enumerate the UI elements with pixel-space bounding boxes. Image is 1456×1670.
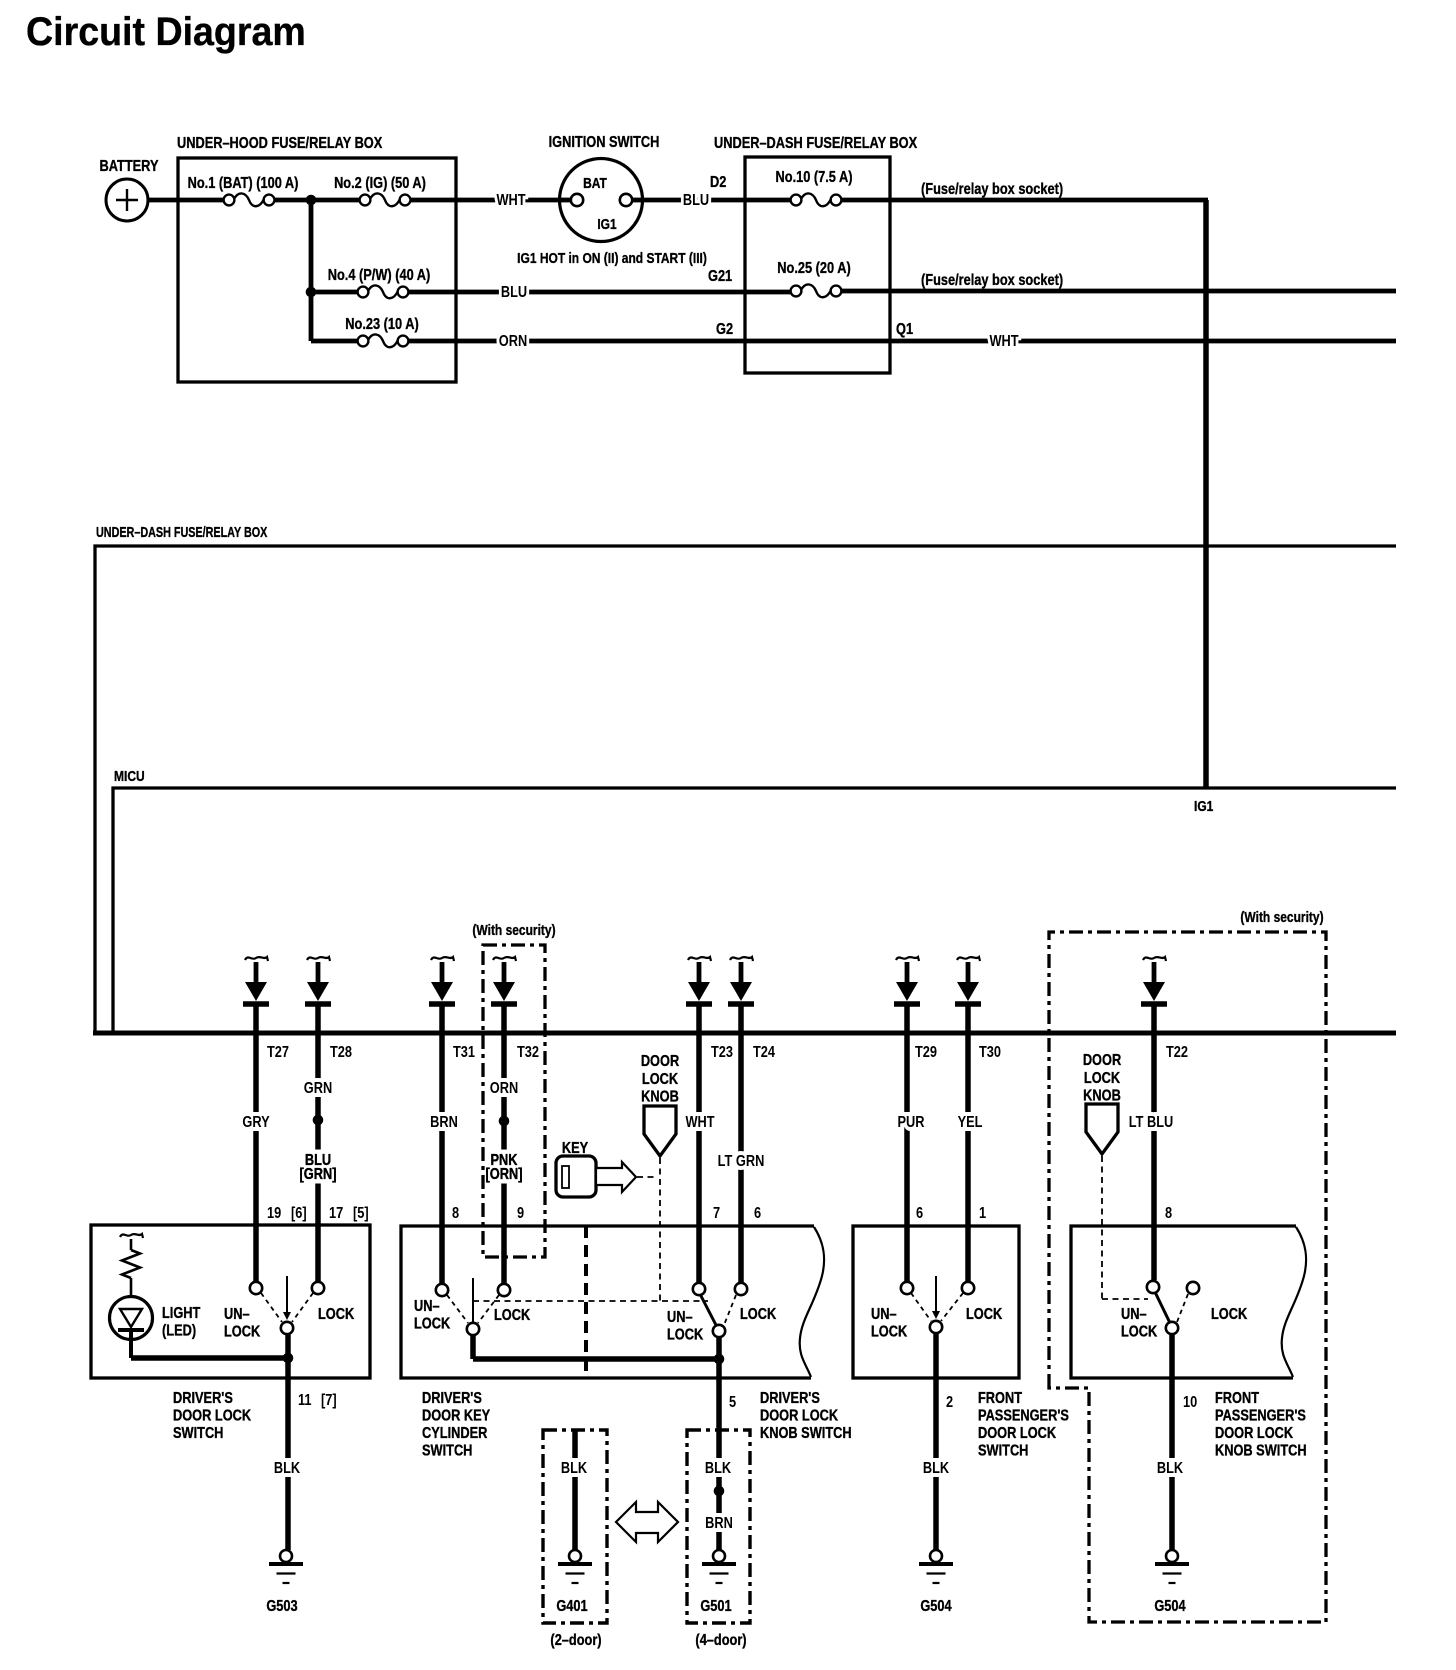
with-security box 1 [483,945,545,1257]
svg-text:PASSENGER'S: PASSENGER'S [1215,1407,1306,1425]
wire switch D output pin 10 [1169,1335,1175,1550]
svg-text:BLK: BLK [274,1460,301,1478]
wire fuse No.1 to fuse No.2 [274,198,360,203]
svg-text:No.2 (IG) (50 A): No.2 (IG) (50 A) [334,175,426,193]
svg-text:BAT: BAT [583,175,607,192]
svg-text:T31: T31 [453,1044,475,1062]
wire T22 LT BLU [1151,1033,1157,1280]
G501 dash-dot box [687,1430,750,1623]
svg-text:BLK: BLK [923,1460,950,1478]
svg-text:IG1 HOT in ON (II) and START (: IG1 HOT in ON (II) and START (III) [517,250,707,267]
ignition switch [560,159,643,242]
svg-text:LOCK: LOCK [1211,1306,1248,1324]
box D torn edge [1282,1227,1306,1377]
driver's door lock knob switch blade [700,1294,717,1327]
svg-text:G504: G504 [920,1598,951,1616]
switch A dashed blades [261,1293,282,1322]
diode T28 [305,957,331,1033]
svg-text:ORN: ORN [490,1080,518,1098]
svg-text:UN–: UN– [224,1306,250,1324]
junction dot knob output [714,1354,725,1365]
G401 dash-dot box [543,1430,607,1623]
svg-text:Q1: Q1 [896,321,913,339]
door lock knob 2 symbol [1086,1104,1118,1154]
svg-text:DOOR: DOOR [641,1053,680,1071]
svg-text:GRY: GRY [242,1114,270,1132]
svg-text:G21: G21 [708,268,732,286]
wire T24 LT GRN [738,1033,744,1283]
under-hood fuse/relay box [178,158,456,382]
wire T28 GRN/BLU [315,1033,321,1281]
svg-text:17: 17 [329,1205,343,1223]
ground G503 [269,1550,303,1583]
svg-text:[GRN]: [GRN] [300,1166,337,1184]
svg-text:KNOB SWITCH: KNOB SWITCH [1215,1442,1307,1460]
svg-text:Circuit Diagram: Circuit Diagram [26,10,306,54]
svg-text:LOCK: LOCK [1084,1070,1121,1088]
fuse No.23 (10 A) [358,334,409,347]
diode T32 [491,957,517,1033]
diode T27 [243,957,269,1033]
switch B contacts [436,1284,448,1296]
svg-text:No.1 (BAT) (100 A): No.1 (BAT) (100 A) [188,175,299,193]
svg-text:LOCK: LOCK [224,1323,261,1341]
svg-text:T29: T29 [915,1044,937,1062]
diode T23 [686,957,712,1033]
wire fuse No.4 to under-dash box, BLU [408,290,791,295]
svg-text:G2: G2 [716,321,733,339]
wire fuse No.25 to right edge [842,289,1396,294]
svg-text:2: 2 [946,1394,953,1412]
svg-text:WHT: WHT [685,1114,714,1132]
svg-text:LOCK: LOCK [494,1307,531,1325]
svg-text:[7]: [7] [321,1392,337,1410]
svg-text:T23: T23 [711,1044,733,1062]
svg-text:ORN: ORN [499,333,527,351]
switch C pole [935,1276,937,1313]
wire T32 ORN/PNK [501,1033,507,1284]
switch B pole [472,1278,474,1323]
svg-text:19: 19 [267,1205,281,1223]
svg-text:5: 5 [729,1394,736,1412]
ground G504 right [1155,1550,1189,1583]
svg-text:No.23 (10 A): No.23 (10 A) [345,316,419,334]
resistor [120,1234,143,1297]
wire ignition to under-dash box, BLU [643,198,791,203]
svg-text:(With security): (With security) [472,922,555,939]
wire switch C output pin 2 [933,1334,939,1550]
svg-text:11: 11 [298,1392,312,1410]
svg-text:LT BLU: LT BLU [1129,1114,1173,1132]
switch B dashed blades [447,1295,468,1323]
svg-text:T28: T28 [330,1044,352,1062]
svg-text:LOCK: LOCK [966,1306,1003,1324]
svg-text:PASSENGER'S: PASSENGER'S [978,1407,1069,1425]
svg-text:SWITCH: SWITCH [173,1425,223,1443]
svg-text:(2–door): (2–door) [550,1632,601,1650]
battery [106,179,148,221]
svg-text:No.25 (20 A): No.25 (20 A) [777,260,851,278]
svg-text:LOCK: LOCK [871,1323,908,1341]
wire fuse No.23 to right edge, ORN WHT [408,339,1396,344]
svg-text:1: 1 [979,1205,986,1223]
svg-text:UNDER–DASH FUSE/RELAY BOX: UNDER–DASH FUSE/RELAY BOX [714,135,917,153]
svg-text:(Fuse/relay box socket): (Fuse/relay box socket) [921,181,1063,199]
svg-text:IGNITION SWITCH: IGNITION SWITCH [549,134,660,152]
wire knob switch output pin 5 [716,1337,722,1359]
svg-text:DOOR LOCK: DOOR LOCK [978,1425,1057,1443]
door lock knob 2 linkage dashed [1101,1156,1103,1299]
ground G501 [702,1550,736,1583]
svg-text:BATTERY: BATTERY [100,158,159,176]
diode T31 [429,957,455,1033]
svg-text:DOOR KEY: DOOR KEY [422,1407,490,1425]
svg-text:BRN: BRN [430,1114,458,1132]
svg-text:9: 9 [517,1205,524,1223]
fuse No.1 (BAT) (100 A) [224,193,275,206]
switch C dashed blades [911,1293,931,1321]
svg-text:LOCK: LOCK [667,1326,704,1344]
svg-text:T32: T32 [517,1044,539,1062]
with-security box 2 [1049,932,1326,1622]
svg-text:DOOR LOCK: DOOR LOCK [1215,1425,1294,1443]
box B torn edge [800,1227,824,1377]
driver's door key cylinder switch box [401,1226,814,1378]
junction dot node B [306,287,317,298]
svg-text:G501: G501 [700,1598,731,1616]
svg-text:(LED): (LED) [162,1322,196,1340]
ground G401 [558,1550,592,1583]
wire G401 BLK [572,1430,578,1550]
svg-text:D2: D2 [710,174,726,192]
svg-text:[5]: [5] [353,1205,369,1223]
fuse No.4 (P/W) (40 A) [358,285,409,298]
junction dot BLK-BRN [714,1486,725,1497]
wire fuse No.2 to ignition switch, WHT [410,198,560,203]
svg-text:10: 10 [1183,1394,1197,1412]
fuse No.25 (20 A) [791,284,842,297]
front passenger's door lock switch box [853,1226,1019,1378]
switch D contacts [1147,1281,1159,1293]
svg-text:CYLINDER: CYLINDER [422,1425,488,1443]
MICU outline [113,788,1396,1031]
svg-text:YEL: YEL [958,1114,983,1132]
wire LED to pole output [131,1355,288,1361]
svg-text:(With security): (With security) [1240,909,1323,926]
svg-text:DRIVER'S: DRIVER'S [173,1390,233,1408]
svg-text:GRN: GRN [304,1080,332,1098]
svg-text:WHT: WHT [989,333,1018,351]
wire ignition internal stubs [558,198,572,203]
diode T24 [728,957,754,1033]
wire to fuse No.4 [311,290,358,295]
junction dot node A [306,195,317,206]
svg-text:6: 6 [916,1205,923,1223]
wire switch A output [285,1334,291,1358]
svg-text:BLU: BLU [683,192,709,210]
svg-text:FRONT: FRONT [978,1390,1022,1408]
svg-text:DRIVER'S: DRIVER'S [760,1390,820,1408]
wire vertical ignition feed IG1 [1203,200,1209,788]
fuse No.10 (7.5 A) [791,193,842,206]
junction dot switch A [283,1353,294,1364]
svg-text:LT GRN: LT GRN [718,1153,765,1171]
svg-text:No.4 (P/W) (40 A): No.4 (P/W) (40 A) [328,267,431,285]
svg-text:7: 7 [713,1205,720,1223]
door lock knob 1 linkage dashed [659,1158,661,1301]
svg-text:KNOB: KNOB [641,1088,679,1106]
svg-text:(4–door): (4–door) [695,1632,746,1650]
switch A contacts [250,1282,262,1294]
svg-text:T30: T30 [979,1044,1001,1062]
wire to fuse No.23 [311,339,358,344]
svg-text:UN–: UN– [871,1306,897,1324]
svg-text:LIGHT: LIGHT [162,1305,200,1323]
svg-text:LOCK: LOCK [414,1315,451,1333]
wire T27 GRY [253,1033,259,1281]
ground G504 left [919,1550,953,1583]
svg-text:T22: T22 [1166,1044,1188,1062]
svg-text:G503: G503 [266,1598,297,1616]
svg-text:BLK: BLK [705,1460,732,1478]
switch D dashed blade [1177,1294,1188,1322]
wire T31 BRN [439,1033,445,1284]
driver's door lock knob switch pole [713,1325,725,1337]
svg-text:UN–: UN– [1121,1306,1147,1324]
driver's door lock knob switch contacts [693,1283,705,1295]
switch D blade [1155,1292,1170,1323]
svg-text:LOCK: LOCK [642,1071,679,1089]
driver's door lock knob switch dashed blade [724,1295,736,1325]
svg-text:8: 8 [452,1205,459,1223]
driver's door lock switch box [91,1225,370,1378]
fuse No.2 (IG) (50 A) [360,193,411,206]
svg-text:BLU: BLU [501,284,527,302]
MICU bottom bus line [93,1031,1396,1036]
wire T23 WHT [696,1033,702,1283]
svg-text:WHT: WHT [496,192,525,210]
svg-text:No.10 (7.5 A): No.10 (7.5 A) [776,169,853,187]
diode T22 [1141,957,1167,1033]
svg-text:SWITCH: SWITCH [422,1442,472,1460]
svg-text:G401: G401 [556,1598,587,1616]
svg-text:BRN: BRN [705,1515,733,1533]
svg-text:DRIVER'S: DRIVER'S [422,1390,482,1408]
key symbol [556,1156,636,1197]
svg-text:IG1: IG1 [1194,798,1214,815]
svg-text:[ORN]: [ORN] [486,1166,523,1184]
wire T29 PUR [904,1033,910,1281]
svg-text:(Fuse/relay box socket): (Fuse/relay box socket) [921,272,1063,290]
box B partition dashed [584,1226,588,1378]
svg-text:T24: T24 [753,1044,775,1062]
svg-text:MICU: MICU [114,768,145,785]
switch A pole [286,1276,288,1314]
svg-text:[6]: [6] [291,1205,307,1223]
svg-text:UN–: UN– [667,1309,693,1327]
svg-text:LOCK: LOCK [318,1306,355,1324]
door lock knob 1 symbol [644,1106,676,1156]
svg-text:T27: T27 [267,1044,289,1062]
2door-4door arrow [616,1502,678,1542]
svg-text:KNOB SWITCH: KNOB SWITCH [760,1425,852,1443]
svg-text:UNDER–HOOD FUSE/RELAY BOX: UNDER–HOOD FUSE/RELAY BOX [177,135,383,153]
svg-text:DOOR LOCK: DOOR LOCK [760,1407,839,1425]
svg-text:6: 6 [754,1205,761,1223]
svg-text:8: 8 [1165,1205,1172,1223]
svg-text:UNDER–DASH FUSE/RELAY BOX: UNDER–DASH FUSE/RELAY BOX [96,523,268,540]
svg-text:LOCK: LOCK [740,1306,777,1324]
wire switch B output to knob switch [470,1335,476,1359]
key linkage dashed [637,1176,658,1178]
svg-text:LOCK: LOCK [1121,1323,1158,1341]
wire vertical inside under-hood box [309,198,314,341]
svg-text:G504: G504 [1154,1598,1185,1616]
diode T30 [955,957,981,1033]
switch C contacts [901,1282,913,1294]
svg-text:IG1: IG1 [597,216,617,233]
wire T30 YEL [965,1033,971,1281]
svg-text:PUR: PUR [897,1114,924,1132]
LED light [110,1297,153,1359]
diode T29 [894,957,920,1033]
svg-text:FRONT: FRONT [1215,1390,1259,1408]
svg-text:UN–: UN– [414,1298,440,1316]
wire battery to fuse No.1 [148,198,224,203]
switch D pole [1166,1322,1178,1334]
svg-text:BLK: BLK [561,1460,588,1478]
svg-text:BLK: BLK [1157,1460,1184,1478]
front passenger's door lock knob switch box [1071,1226,1296,1378]
under-dash fuse/relay box (main) outline [95,546,1396,1031]
wire fuse No.10 to vertical feed [842,198,1208,203]
svg-text:SWITCH: SWITCH [978,1442,1028,1460]
under-dash fuse/relay box (top) [745,157,890,373]
svg-text:DOOR: DOOR [1083,1052,1122,1070]
svg-text:DOOR LOCK: DOOR LOCK [173,1407,252,1425]
